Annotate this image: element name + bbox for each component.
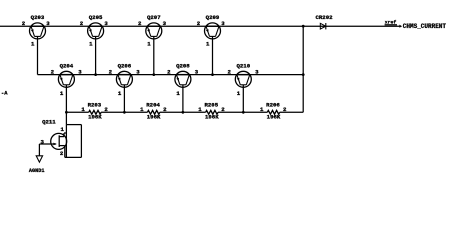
wire: emitter/resistor chain line with gaps for resistor bodies <box>66 111 303 113</box>
svg-text:3: 3 <box>104 20 108 27</box>
off-page arrow to CHMS_CURRENT <box>399 25 402 28</box>
svg-text:AGND1: AGND1 <box>29 168 45 174</box>
resistor R206 196K <box>260 101 287 120</box>
svg-text:CHMS_CURRENT: CHMS_CURRENT <box>403 23 447 30</box>
svg-text:196K: 196K <box>88 114 102 121</box>
svg-text:1: 1 <box>140 106 144 113</box>
svg-text:1: 1 <box>118 90 122 97</box>
svg-text:3: 3 <box>136 69 140 76</box>
svg-text:1: 1 <box>176 90 180 97</box>
node -A (sheet reference at left edge) <box>1 90 8 96</box>
junction: Q206 emitter drop onto chain line <box>123 111 126 114</box>
pin 1 of Q205 <box>89 40 93 47</box>
pin 3 of Q206 <box>136 69 140 76</box>
svg-text:1: 1 <box>206 40 210 47</box>
transistor Q210 <box>235 63 251 113</box>
resistor R205 196K <box>198 101 225 120</box>
junction: Q210 emitter drop onto chain line <box>242 111 245 114</box>
pin 1 of Q203 <box>31 40 35 47</box>
pin 1 of Q211 <box>60 126 64 133</box>
pin 2 of Q208 <box>167 69 171 76</box>
pin 1 of Q210 <box>237 90 241 97</box>
pin 3 of Q210 <box>255 69 259 76</box>
svg-text:Q207: Q207 <box>147 14 161 21</box>
svg-text:Q203: Q203 <box>31 14 45 21</box>
pin 2 of Q211 <box>60 150 64 157</box>
svg-text:-A: -A <box>1 90 8 96</box>
svg-text:1: 1 <box>60 126 64 133</box>
wire: second rail (base line) from Q203 drop corner to right vertical <box>38 74 304 76</box>
transistor Q211 (FET) <box>42 118 67 157</box>
svg-text:196K: 196K <box>267 114 281 121</box>
pin 3 of Q205 <box>104 20 108 27</box>
svg-text:2: 2 <box>163 106 167 113</box>
svg-text:3: 3 <box>221 20 225 27</box>
svg-text:2: 2 <box>80 20 84 27</box>
svg-text:1: 1 <box>237 90 241 97</box>
svg-text:2: 2 <box>283 106 287 113</box>
pin 3 of Q209 <box>221 20 225 27</box>
junction: Q204 emitter drop onto chain line <box>65 111 68 114</box>
transistor Q207 <box>146 14 162 75</box>
svg-text:2: 2 <box>104 106 108 113</box>
svg-text:Q204: Q204 <box>60 63 74 70</box>
transistor Q203 <box>30 14 46 75</box>
svg-text:R203: R203 <box>88 101 102 108</box>
svg-text:R206: R206 <box>266 101 280 108</box>
svg-text:Q211: Q211 <box>42 118 56 125</box>
svg-text:3: 3 <box>78 69 82 76</box>
svg-text:2: 2 <box>51 69 55 76</box>
svg-text:Q206: Q206 <box>118 63 132 70</box>
svg-text:1: 1 <box>60 90 64 97</box>
svg-text:1: 1 <box>147 40 151 47</box>
svg-text:3: 3 <box>255 69 259 76</box>
junction: second rail to right vertical <box>302 73 305 76</box>
svg-text:1: 1 <box>198 106 202 113</box>
svg-text:R204: R204 <box>146 101 160 108</box>
pin 3 of Q203 <box>46 20 50 27</box>
transistor Q204 <box>58 63 74 113</box>
svg-text:Q209: Q209 <box>206 14 220 21</box>
junction: Q208 emitter drop onto chain line <box>182 111 185 114</box>
svg-text:2: 2 <box>227 69 231 76</box>
svg-text:Q210: Q210 <box>236 63 250 70</box>
pin 1 of Q209 <box>206 40 210 47</box>
svg-text:2: 2 <box>197 20 201 27</box>
transistor Q208 <box>175 63 191 113</box>
diode CR202 <box>315 14 333 29</box>
wire: drop from chain junction down to Q211 drain loop <box>65 112 67 124</box>
svg-text:2: 2 <box>167 69 171 76</box>
svg-text:2: 2 <box>221 106 225 113</box>
pin 1 of Q204 <box>60 90 64 97</box>
pin 3 of Q207 <box>163 20 167 27</box>
svg-text:1: 1 <box>260 106 264 113</box>
svg-text:1: 1 <box>81 106 85 113</box>
transistor Q209 <box>205 14 221 75</box>
pin 2 of Q207 <box>138 20 142 27</box>
wire: Q211 gate to ground <box>39 144 51 156</box>
pin 2 of Q204 <box>51 69 55 76</box>
resistor R204 196K <box>140 101 167 120</box>
svg-text:1: 1 <box>89 40 93 47</box>
transistor Q205 <box>88 14 104 75</box>
svg-text:Q208: Q208 <box>176 63 190 70</box>
wire: top rail from left edge through Q203,Q205,Q207,Q209 to xref arrow <box>0 25 400 27</box>
pin 2 of Q203 <box>22 20 26 27</box>
svg-text:3: 3 <box>195 69 199 76</box>
svg-text:2: 2 <box>60 150 64 157</box>
net label CHMS_CURRENT <box>403 23 447 30</box>
junction: Q207 collector drop onto second rail <box>152 73 155 76</box>
xref link label <box>385 20 397 26</box>
pin 2 of Q206 <box>109 69 113 76</box>
svg-text:2: 2 <box>138 20 142 27</box>
svg-text:1: 1 <box>31 40 35 47</box>
junction: Q205 collector drop onto second rail <box>94 73 97 76</box>
pin 1 of Q207 <box>147 40 151 47</box>
resistor R203 196K <box>81 101 108 120</box>
pin 3 of Q204 <box>78 69 82 76</box>
pin 1 of Q206 <box>118 90 122 97</box>
svg-text:2: 2 <box>22 20 26 27</box>
svg-text:196K: 196K <box>205 114 219 121</box>
svg-text:Q205: Q205 <box>89 14 103 21</box>
transistor Q206 <box>116 63 132 113</box>
svg-text:CR202: CR202 <box>315 14 333 21</box>
wire: right vertical tie from top rail down to chain line <box>302 26 304 112</box>
svg-text:196K: 196K <box>147 114 161 121</box>
pin 2 of Q210 <box>227 69 231 76</box>
svg-text:3: 3 <box>163 20 167 27</box>
svg-text:3: 3 <box>46 20 50 27</box>
wire: drain-source loop box around Q211 <box>65 125 82 158</box>
ground AGND1 <box>29 156 45 174</box>
svg-text:R205: R205 <box>204 101 218 108</box>
pin 3 of Q211 <box>40 138 44 145</box>
svg-text:2: 2 <box>109 69 113 76</box>
pin 1 of Q208 <box>176 90 180 97</box>
junction: top rail to right vertical <box>302 25 305 28</box>
pin 3 of Q208 <box>195 69 199 76</box>
junction: Q209 collector drop onto second rail <box>211 73 214 76</box>
pin 2 of Q205 <box>80 20 84 27</box>
pin 2 of Q209 <box>197 20 201 27</box>
